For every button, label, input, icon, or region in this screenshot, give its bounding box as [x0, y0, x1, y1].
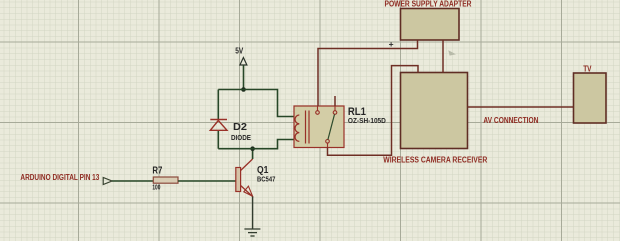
stub NC contact	[334, 96, 336, 106]
power symbol 5V	[240, 58, 247, 66]
svg-text:5V: 5V	[235, 46, 244, 55]
wire loop left lower	[217, 130, 219, 148]
wire emitter down	[252, 197, 254, 230]
relay RL1	[294, 106, 344, 148]
svg-text:AV CONNECTION: AV CONNECTION	[483, 116, 538, 125]
wire loop bottom	[218, 140, 294, 149]
svg-text:100: 100	[152, 183, 160, 192]
wire loop left upper	[217, 90, 219, 120]
svg-text:D2: D2	[233, 122, 247, 133]
wire W2 psu to receiver	[442, 40, 444, 73]
wire collector up	[252, 149, 254, 159]
svg-text:WIRELESS CAMERA RECEIVER: WIRELESS CAMERA RECEIVER	[383, 155, 487, 164]
svg-text:DIODE: DIODE	[231, 133, 251, 142]
wire AV connection	[468, 106, 574, 108]
svg-text:BC547: BC547	[257, 175, 275, 184]
svg-text:+: +	[389, 39, 394, 49]
terminal ARDUINO DIGITAL PIN 13	[103, 178, 112, 185]
junction top	[241, 87, 246, 92]
box POWER SUPPLY ADAPTER	[401, 9, 460, 41]
svg-text:ARDUINO DIGITAL PIN 13: ARDUINO DIGITAL PIN 13	[20, 173, 99, 182]
cursor arrow	[448, 50, 456, 55]
junction bottom	[250, 146, 255, 151]
wire R7 to base	[178, 180, 236, 182]
transistor Q1	[236, 159, 253, 197]
box TV	[574, 73, 607, 123]
wire 5V down	[243, 65, 245, 90]
svg-text:OZ-SH-105D: OZ-SH-105D	[348, 116, 387, 125]
resistor R7	[153, 177, 178, 183]
svg-text:TV: TV	[583, 64, 592, 73]
wire terminal to R7	[112, 180, 153, 182]
wire W1 psu to relay contact	[318, 40, 418, 106]
diode D2	[210, 120, 227, 131]
wire loop top	[218, 90, 294, 117]
wire W3 relay common to receiver	[328, 66, 419, 156]
ground	[244, 229, 260, 236]
box WIRELESS CAMERA RECEIVER	[401, 73, 468, 149]
svg-text:POWER SUPPLY ADAPTER: POWER SUPPLY ADAPTER	[385, 0, 472, 9]
svg-text:R7: R7	[152, 166, 162, 177]
